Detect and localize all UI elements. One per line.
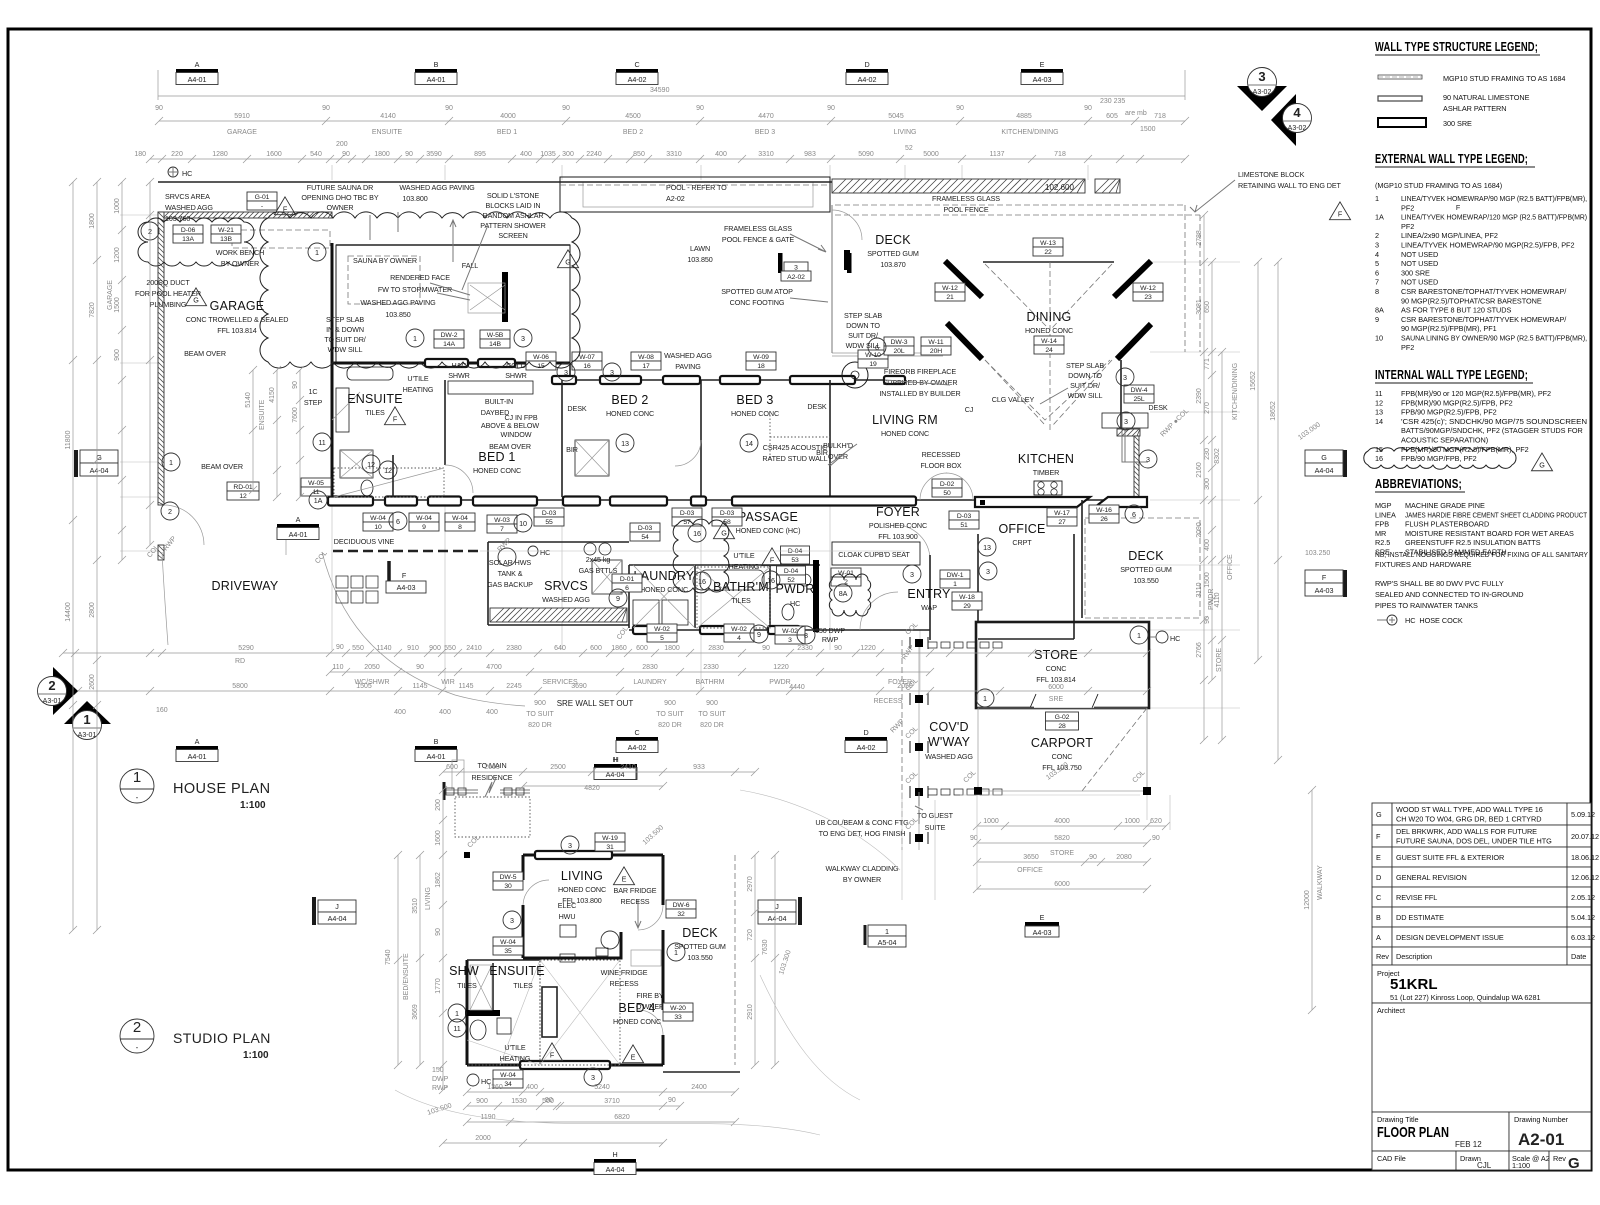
svg-text:G: G xyxy=(1568,1155,1580,1172)
svg-text:3710: 3710 xyxy=(604,1098,620,1105)
svg-text:910: 910 xyxy=(407,645,419,652)
svg-text:A3-02: A3-02 xyxy=(1253,89,1272,96)
svg-text:718: 718 xyxy=(1154,113,1166,120)
svg-text:PLUMBING: PLUMBING xyxy=(150,300,187,309)
svg-text:E: E xyxy=(631,1053,636,1062)
svg-text:16: 16 xyxy=(698,577,706,586)
svg-text:3: 3 xyxy=(510,916,514,925)
office walls xyxy=(977,534,979,622)
svg-text:1: 1 xyxy=(674,948,678,957)
svg-text:895: 895 xyxy=(474,151,486,158)
svg-text:GREENSTUFF R2.5 INSULATION BAT: GREENSTUFF R2.5 INSULATION BATTS xyxy=(1405,538,1541,547)
svg-text:1A: 1A xyxy=(314,496,323,505)
svg-text:F: F xyxy=(1456,203,1461,212)
svg-text:WASHED AGG: WASHED AGG xyxy=(165,203,213,212)
svg-text:103.550: 103.550 xyxy=(1133,576,1158,585)
svg-text:8A: 8A xyxy=(1375,306,1384,315)
svg-text:16: 16 xyxy=(583,363,591,370)
svg-text:GAS BACKUP: GAS BACKUP xyxy=(487,580,533,589)
svg-text:WDW SILL: WDW SILL xyxy=(328,345,363,354)
svg-text:1360: 1360 xyxy=(487,1084,503,1091)
svg-text:3: 3 xyxy=(568,841,572,850)
svg-text:10: 10 xyxy=(519,519,527,528)
room BED 3 xyxy=(731,393,779,418)
svg-text:BEAM OVER: BEAM OVER xyxy=(489,442,531,451)
svg-text:SRE WALL SET OUT: SRE WALL SET OUT xyxy=(557,699,634,708)
svg-text:DECIDUOUS VINE: DECIDUOUS VINE xyxy=(334,537,395,546)
svg-text:FUTURE SAUNA, DOS DEL, UNDER T: FUTURE SAUNA, DOS DEL, UNDER TILE HTG xyxy=(1396,837,1552,846)
svg-text:6: 6 xyxy=(396,517,400,526)
svg-text:WORK BENCH: WORK BENCH xyxy=(216,248,265,257)
svg-text:12000: 12000 xyxy=(1304,890,1311,910)
svg-text:1800: 1800 xyxy=(374,151,390,158)
revision cloud garage corner xyxy=(138,218,254,266)
svg-text:550: 550 xyxy=(444,645,456,652)
svg-text:SHWR: SHWR xyxy=(448,371,470,380)
svg-text:718: 718 xyxy=(1054,151,1066,158)
svg-text:G: G xyxy=(1321,453,1327,462)
svg-text:HONED CONC: HONED CONC xyxy=(558,885,606,894)
svg-text:A: A xyxy=(195,737,200,746)
svg-text:5000: 5000 xyxy=(923,151,939,158)
svg-text:HWU: HWU xyxy=(559,912,576,921)
svg-text:STORE: STORE xyxy=(1216,648,1223,672)
svg-text:LIVING: LIVING xyxy=(894,129,917,136)
svg-text:1860: 1860 xyxy=(611,645,627,652)
svg-text:13B: 13B xyxy=(220,236,232,243)
bed3/living wall xyxy=(829,380,831,497)
svg-text:2.05.12: 2.05.12 xyxy=(1571,893,1595,902)
svg-text:D-04: D-04 xyxy=(788,548,803,555)
svg-text:D: D xyxy=(1376,873,1381,882)
svg-text:A4-02: A4-02 xyxy=(857,743,876,752)
title house plan xyxy=(120,769,154,803)
svg-text:TO ENG DET, HOG FINISH: TO ENG DET, HOG FINISH xyxy=(819,829,906,838)
svg-text:F: F xyxy=(1376,832,1381,841)
svg-text:G-01: G-01 xyxy=(255,194,270,201)
studio room labels xyxy=(558,869,606,905)
svg-text:14A: 14A xyxy=(443,341,455,348)
studio outline walls xyxy=(523,854,663,857)
svg-text:SRE: SRE xyxy=(1049,696,1064,703)
svg-text:RD: RD xyxy=(235,658,245,665)
svg-text:2830: 2830 xyxy=(642,664,658,671)
svg-text:HONED CONC: HONED CONC xyxy=(1025,326,1073,335)
svg-text:SOLID L'STONE: SOLID L'STONE xyxy=(487,191,540,200)
svg-text:300: 300 xyxy=(1204,478,1211,490)
svg-text:GUEST SUITE FFL & EXTERIOR: GUEST SUITE FFL & EXTERIOR xyxy=(1396,853,1504,862)
svg-text:2: 2 xyxy=(133,1019,141,1036)
svg-text:A4-01: A4-01 xyxy=(427,752,446,761)
svg-text:32: 32 xyxy=(677,911,685,918)
svg-text:90: 90 xyxy=(545,1097,553,1104)
bathroom dotted xyxy=(697,567,770,628)
room FOYER xyxy=(869,505,927,541)
svg-text:8: 8 xyxy=(458,524,462,531)
svg-text:SPOTTED GUM: SPOTTED GUM xyxy=(1120,565,1172,574)
svg-text:W-17: W-17 xyxy=(1054,510,1070,517)
svg-text:POOL - REFER TO: POOL - REFER TO xyxy=(666,183,727,192)
svg-text:EXTERNAL WALL TYPE LEGEND;: EXTERNAL WALL TYPE LEGEND; xyxy=(1375,152,1528,166)
svg-text:CARPORT: CARPORT xyxy=(1031,736,1093,750)
svg-text:ENSUITE: ENSUITE xyxy=(259,399,266,430)
svg-text:9: 9 xyxy=(757,630,761,639)
room ENTRY xyxy=(907,587,951,612)
svg-text:ASHLAR PATTERN: ASHLAR PATTERN xyxy=(1443,104,1507,113)
svg-text:WASHED AGG PAVING: WASHED AGG PAVING xyxy=(399,183,475,192)
svg-text:103.550: 103.550 xyxy=(687,953,712,962)
svg-text:3310: 3310 xyxy=(758,151,774,158)
svg-text:LIVING RM: LIVING RM xyxy=(872,413,938,427)
svg-text:FOR POOL HEATER: FOR POOL HEATER xyxy=(135,289,201,298)
svg-text:RESIDENCE: RESIDENCE xyxy=(471,773,512,782)
svg-text:7: 7 xyxy=(500,526,504,533)
svg-text:WDW SILL: WDW SILL xyxy=(1068,391,1103,400)
svg-text:W-18: W-18 xyxy=(959,594,975,601)
svg-text:A3-02: A3-02 xyxy=(1288,125,1307,132)
svg-text:11800: 11800 xyxy=(65,430,72,449)
svg-text:150: 150 xyxy=(432,1067,444,1074)
svg-text:CJ IN FPB: CJ IN FPB xyxy=(504,413,537,422)
svg-text:RECESSED: RECESSED xyxy=(922,450,961,459)
svg-text:W-04: W-04 xyxy=(370,515,386,522)
svg-text:DOWN TO: DOWN TO xyxy=(846,321,880,330)
svg-text:NB; INSTALL NOGGINGS REQUIRED: NB; INSTALL NOGGINGS REQUIRED FOR FIXING… xyxy=(1375,550,1588,559)
svg-text:2766: 2766 xyxy=(1196,642,1203,658)
svg-text:SRVCS: SRVCS xyxy=(544,579,588,593)
svg-text:Drawing Number: Drawing Number xyxy=(1514,1115,1569,1124)
svg-text:FFL 103.900: FFL 103.900 xyxy=(878,532,917,541)
svg-text:INTERNAL WALL TYPE LEGEND;: INTERNAL WALL TYPE LEGEND; xyxy=(1375,368,1528,382)
svg-text:FEB 12: FEB 12 xyxy=(1455,1140,1482,1149)
studio deck dashes xyxy=(734,855,736,1065)
bottom section markers xyxy=(176,737,218,762)
svg-text:POOL FENCE & GATE: POOL FENCE & GATE xyxy=(722,235,794,244)
svg-text:GAS BTTLS: GAS BTTLS xyxy=(579,566,618,575)
work bench dashed xyxy=(232,230,330,248)
store HC xyxy=(1156,631,1168,643)
svg-text:DESK: DESK xyxy=(1148,403,1167,412)
svg-text:SPOTTED GUM: SPOTTED GUM xyxy=(674,942,726,951)
svg-text:1: 1 xyxy=(455,1009,459,1018)
svg-text:CONC: CONC xyxy=(1046,664,1067,673)
svg-text:4500: 4500 xyxy=(625,113,641,120)
svg-text:A4-01: A4-01 xyxy=(188,752,207,761)
pool gate piers + marker 3/A2-02 xyxy=(778,253,783,273)
svg-text:9: 9 xyxy=(1375,315,1379,324)
svg-text:2240: 2240 xyxy=(586,151,602,158)
studio label boxes xyxy=(595,833,625,851)
svg-text:STEP SLAB: STEP SLAB xyxy=(844,311,882,320)
svg-text:20L: 20L xyxy=(893,348,904,355)
svg-text:TILES: TILES xyxy=(457,981,477,990)
svg-text:INSTALLED BY BUILDER: INSTALLED BY BUILDER xyxy=(879,389,960,398)
svg-text:1: 1 xyxy=(413,334,417,343)
svg-text:54: 54 xyxy=(641,534,649,541)
svg-text:26: 26 xyxy=(1100,516,1108,523)
svg-text:2910: 2910 xyxy=(747,1004,754,1020)
svg-text:14: 14 xyxy=(1375,417,1383,426)
top boundary line garage/services xyxy=(158,181,832,183)
svg-text:35: 35 xyxy=(504,948,512,955)
studio curves xyxy=(395,1090,820,1135)
right vertical dim chains xyxy=(1203,215,1205,740)
svg-text:WASHED AGG: WASHED AGG xyxy=(925,752,973,761)
svg-text:220: 220 xyxy=(171,151,183,158)
svg-text:FOYER: FOYER xyxy=(876,505,920,519)
witness lines vertical xyxy=(331,165,333,180)
svg-text:CLG VALLEY: CLG VALLEY xyxy=(992,395,1035,404)
svg-text:FRAMELESS GLASS: FRAMELESS GLASS xyxy=(932,194,1000,203)
title block drawing number xyxy=(1509,1112,1591,1151)
svg-text:27: 27 xyxy=(1058,519,1066,526)
svg-text:13: 13 xyxy=(621,439,629,448)
svg-text:4110: 4110 xyxy=(1214,592,1221,607)
svg-text:600: 600 xyxy=(636,645,648,652)
svg-text:2245: 2245 xyxy=(506,683,522,690)
svg-text:820 DR: 820 DR xyxy=(658,722,682,729)
svg-text:1600: 1600 xyxy=(266,151,282,158)
svg-text:WALL TYPE STRUCTURE LEGEND;: WALL TYPE STRUCTURE LEGEND; xyxy=(1375,40,1538,54)
svg-text:CH W20 TO W04, GRG DR, BED 1 C: CH W20 TO W04, GRG DR, BED 1 CRTYRD xyxy=(1396,815,1541,824)
deck east dashed xyxy=(1085,518,1200,618)
svg-text:A4-04: A4-04 xyxy=(328,914,347,923)
HC hose cock top left xyxy=(168,167,178,177)
svg-text:LINEA/TYVEK HOMEWRAP/120 MGP (: LINEA/TYVEK HOMEWRAP/120 MGP (R2.5 BATT)… xyxy=(1401,213,1587,222)
svg-text:CONC: CONC xyxy=(1052,752,1073,761)
svg-text:1000: 1000 xyxy=(983,818,999,825)
svg-text:W-04: W-04 xyxy=(500,1072,516,1079)
svg-text:RWP: RWP xyxy=(432,1085,449,1092)
svg-text:200SQ DUCT: 200SQ DUCT xyxy=(146,278,190,287)
svg-text:PASSAGE: PASSAGE xyxy=(738,510,798,524)
svg-text:5.09.12: 5.09.12 xyxy=(1571,810,1595,819)
svg-text:POOL FENCE: POOL FENCE xyxy=(943,205,988,214)
room DINING xyxy=(1025,310,1073,335)
svg-text:3: 3 xyxy=(794,265,798,272)
svg-text:820 DR: 820 DR xyxy=(700,722,724,729)
svg-text:TO SUIT DR/: TO SUIT DR/ xyxy=(324,335,365,344)
left ensuite dims xyxy=(252,370,254,490)
svg-text:6820: 6820 xyxy=(614,1114,630,1121)
pwdr fixtures xyxy=(782,604,794,620)
svg-text:STORE: STORE xyxy=(1050,850,1074,857)
flag 4/A3-02 xyxy=(1271,94,1312,146)
svg-text:3: 3 xyxy=(1375,241,1379,250)
svg-text:600: 600 xyxy=(446,764,458,771)
deciduous vine dashed xyxy=(333,550,480,553)
svg-text:51KRL: 51KRL xyxy=(1390,976,1438,993)
studio right dim chains xyxy=(754,855,756,1065)
svg-text:OFFICE: OFFICE xyxy=(1227,554,1234,580)
title block architect xyxy=(1372,1003,1591,1112)
robe xyxy=(542,987,557,1037)
svg-text:5820: 5820 xyxy=(1054,835,1070,842)
svg-text:D-01: D-01 xyxy=(620,576,635,583)
room LIVING RM xyxy=(872,413,938,438)
svg-text:WAP: WAP xyxy=(921,603,937,612)
garage door opening arc xyxy=(164,505,204,545)
svg-text:33: 33 xyxy=(674,1014,682,1021)
svg-text:SHW: SHW xyxy=(449,964,479,978)
walkway hatch chains xyxy=(928,642,937,648)
svg-text:2600: 2600 xyxy=(89,674,96,690)
svg-text:COLD: COLD xyxy=(506,361,526,370)
svg-text:A2-02: A2-02 xyxy=(787,274,805,281)
svg-text:B: B xyxy=(1376,913,1381,922)
svg-text:CRPT: CRPT xyxy=(1012,538,1032,547)
svg-text:9: 9 xyxy=(616,594,620,603)
svg-text:3: 3 xyxy=(610,368,614,377)
svg-text:1500: 1500 xyxy=(1204,572,1211,588)
entry east wall xyxy=(929,555,931,640)
svg-text:JAMES HARDIE FIBRE CEMENT SHEE: JAMES HARDIE FIBRE CEMENT SHEET CLADDING… xyxy=(1405,510,1588,519)
svg-text:KITCHEN/DINING: KITCHEN/DINING xyxy=(1001,129,1058,136)
svg-text:90: 90 xyxy=(696,105,704,112)
carport dim rows xyxy=(977,825,1166,827)
svg-text:150 DWP: 150 DWP xyxy=(815,626,845,635)
svg-text:900: 900 xyxy=(706,700,718,707)
svg-text:21: 21 xyxy=(946,294,954,301)
svg-text:FIRE BY: FIRE BY xyxy=(636,991,664,1000)
svg-text:G: G xyxy=(565,258,571,267)
room LAUNDRY xyxy=(634,569,695,594)
kitchen east hatched walls xyxy=(1117,429,1140,436)
svg-text:1280: 1280 xyxy=(212,151,228,158)
svg-text:RWP: RWP xyxy=(822,635,839,644)
cloak cupboard seat xyxy=(832,542,920,565)
marker G/A4-04 left xyxy=(76,450,118,477)
svg-text:1:100: 1:100 xyxy=(243,1050,269,1061)
svg-text:102.600: 102.600 xyxy=(1045,183,1074,192)
svg-text:16: 16 xyxy=(693,529,701,538)
svg-text:720: 720 xyxy=(747,929,754,941)
svg-text:LIVING: LIVING xyxy=(425,887,432,910)
svg-text:1: 1 xyxy=(983,694,987,703)
room SRVCS xyxy=(542,579,590,604)
svg-text:4150: 4150 xyxy=(269,387,276,403)
fall arrow xyxy=(450,220,456,262)
svg-text:AS FOR TYPE 8 BUT 120 STUDS: AS FOR TYPE 8 BUT 120 STUDS xyxy=(1401,306,1511,315)
svg-text:7600: 7600 xyxy=(292,407,299,423)
legend symbol: limestone xyxy=(1378,96,1422,101)
svg-text:KITCHEN/DINING: KITCHEN/DINING xyxy=(1232,363,1239,420)
svg-text:C: C xyxy=(1376,893,1381,902)
passage/laundry block walls xyxy=(488,541,629,543)
leader lines xyxy=(370,212,488,290)
svg-text:90: 90 xyxy=(1089,854,1097,861)
revision cloud passage xyxy=(673,519,729,593)
svg-text:2330: 2330 xyxy=(703,664,719,671)
svg-text:MGP10 STUD FRAMING TO AS 1684: MGP10 STUD FRAMING TO AS 1684 xyxy=(1443,74,1565,83)
pool rect xyxy=(560,177,830,212)
svg-text:300: 300 xyxy=(562,151,574,158)
svg-text:D-03: D-03 xyxy=(680,510,695,517)
svg-text:BEAM OVER: BEAM OVER xyxy=(201,462,243,471)
svg-text:200: 200 xyxy=(435,799,442,811)
svg-text:1000: 1000 xyxy=(114,198,121,214)
svg-text:KITCHEN: KITCHEN xyxy=(1018,452,1074,466)
marker 1/A5-04 xyxy=(865,925,906,947)
left dim chains xyxy=(96,182,98,930)
svg-text:W-04: W-04 xyxy=(500,939,516,946)
svg-text:LINEA: LINEA xyxy=(1375,510,1396,519)
svg-text:E: E xyxy=(622,875,627,884)
svg-text:900: 900 xyxy=(664,700,676,707)
svg-text:2830: 2830 xyxy=(708,645,724,652)
svg-text:W-11: W-11 xyxy=(928,339,944,346)
bottom dim row 1 xyxy=(63,652,1147,654)
svg-text:J: J xyxy=(775,902,779,911)
svg-text:BATHR'M: BATHR'M xyxy=(713,580,769,594)
svg-text:FPB/90 MGP(R2.5)/FPB, PF2: FPB/90 MGP(R2.5)/FPB, PF2 xyxy=(1401,408,1497,417)
svg-text:400: 400 xyxy=(439,709,451,716)
svg-text:PAVING: PAVING xyxy=(675,362,701,371)
svg-text:SCREEN: SCREEN xyxy=(498,231,527,240)
svg-text:22: 22 xyxy=(1044,249,1052,256)
svg-text:29: 29 xyxy=(963,603,971,610)
svg-text:(MGP10 STUD FRAMING TO AS 1684: (MGP10 STUD FRAMING TO AS 1684) xyxy=(1375,181,1502,190)
studio triangles xyxy=(613,867,634,885)
svg-text:550: 550 xyxy=(352,645,364,652)
bed2/bed3 wall xyxy=(700,380,702,497)
svg-text:W-06: W-06 xyxy=(533,354,549,361)
svg-text:BED/ENSUITE: BED/ENSUITE xyxy=(403,953,410,1000)
svg-text:D-02: D-02 xyxy=(940,481,955,488)
svg-text:CLOAK CUPB'D SEAT: CLOAK CUPB'D SEAT xyxy=(838,550,910,559)
svg-text:2: 2 xyxy=(168,507,172,516)
svg-text:DOWN TO: DOWN TO xyxy=(1068,371,1102,380)
svg-text:90 NATURAL LIMESTONE: 90 NATURAL LIMESTONE xyxy=(1443,93,1530,102)
svg-text:900: 900 xyxy=(429,645,441,652)
svg-text:ENSUITE: ENSUITE xyxy=(372,129,403,136)
svg-text:HONED CONC: HONED CONC xyxy=(473,466,521,475)
covered walkway dashed lines xyxy=(901,640,903,850)
retaining wall hatched band xyxy=(832,179,1085,193)
svg-text:RECESS: RECESS xyxy=(874,698,903,705)
ensuite/bed1 wall xyxy=(444,380,446,465)
svg-text:1862: 1862 xyxy=(435,872,442,888)
svg-text:W-19: W-19 xyxy=(602,835,618,842)
svg-text:H: H xyxy=(612,755,617,764)
ensuite fixtures xyxy=(347,367,393,380)
svg-text:18.06.12: 18.06.12 xyxy=(1571,853,1599,862)
svg-text:HONED CONC: HONED CONC xyxy=(731,409,779,418)
svg-text:LINEA/2x90 MGP/LINEA, PF2: LINEA/2x90 MGP/LINEA, PF2 xyxy=(1401,231,1498,240)
svg-text:103.250: 103.250 xyxy=(1305,550,1330,557)
svg-text:1200: 1200 xyxy=(114,247,121,263)
svg-text:RD-01: RD-01 xyxy=(233,484,252,491)
svg-text:983: 983 xyxy=(804,151,816,158)
svg-text:650: 650 xyxy=(1204,301,1211,313)
top dim row 2 xyxy=(150,158,1185,160)
svg-text:5910: 5910 xyxy=(234,113,250,120)
dining east wall xyxy=(1120,360,1122,430)
svg-text:TO SUIT: TO SUIT xyxy=(526,711,554,718)
dining deck angled columns xyxy=(945,261,982,297)
svg-text:6000: 6000 xyxy=(1048,684,1064,691)
svg-text:SPOTTED GUM ATOP: SPOTTED GUM ATOP xyxy=(721,287,793,296)
svg-text:13A: 13A xyxy=(182,236,194,243)
svg-text:TILES: TILES xyxy=(731,596,751,605)
svg-text:160: 160 xyxy=(156,707,168,714)
marker J right xyxy=(758,897,800,925)
svg-text:NOT USED: NOT USED xyxy=(1401,250,1438,259)
svg-text:900: 900 xyxy=(534,700,546,707)
svg-text:HEATING: HEATING xyxy=(403,385,434,394)
svg-text:90: 90 xyxy=(827,105,835,112)
svg-text:PATTERN SHOWER: PATTERN SHOWER xyxy=(480,221,545,230)
